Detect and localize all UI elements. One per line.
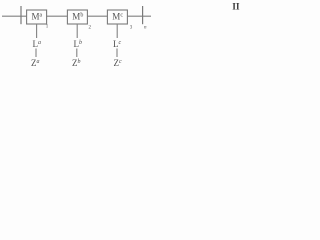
leg a upper [36,24,38,38]
leg c lower [116,49,118,58]
leg c upper [116,24,118,38]
right boundary bar [142,6,144,24]
leg b lower [76,49,78,58]
box M^a [27,10,47,24]
wire main horizontal [2,15,151,17]
box M^c [107,10,127,24]
svg-text:II: II [232,3,240,13]
leg b upper [76,24,78,38]
box M^b [67,10,87,24]
left boundary bar [20,6,22,24]
leg a lower [35,49,37,58]
